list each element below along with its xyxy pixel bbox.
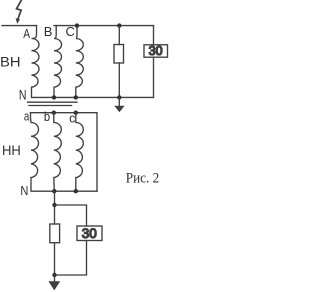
- transformer HV coil C: [76, 26, 84, 98]
- wire resistor to bottom node: [54, 243, 56, 275]
- wire phase B-C bus: [54, 25, 154, 27]
- wire resistor to N bus: [118, 63, 120, 97]
- transformer core lines: [28, 101, 78, 103]
- node resistor top junction: [117, 23, 121, 27]
- wire arrester branch down: [153, 26, 155, 45]
- wire neutral down lead: [54, 191, 56, 224]
- transformer LV coil c: [76, 113, 84, 192]
- wire branch to arrester lower: [55, 205, 87, 226]
- svg-text:A: A: [23, 26, 30, 41]
- svg-text:Рис. 2: Рис. 2: [126, 171, 160, 187]
- node ground tap junction: [117, 95, 121, 99]
- arrester box 30 lower: [77, 226, 102, 241]
- node C bottom junction: [74, 95, 78, 99]
- svg-text:a: a: [24, 109, 29, 123]
- node c bottom junction: [74, 189, 78, 193]
- wire resistor branch upper: [118, 26, 120, 45]
- arrester box 30 upper: [144, 45, 168, 57]
- node B bottom junction: [52, 95, 56, 99]
- svg-text:N: N: [20, 184, 28, 198]
- node bottom junction: [52, 273, 56, 277]
- wire arrester to bottom node: [55, 241, 87, 276]
- node b bottom junction: [52, 189, 56, 193]
- wire phase A bus: [2, 25, 37, 27]
- wire LV neutral bus N: [32, 190, 97, 192]
- ground symbol lower: [48, 275, 60, 290]
- wire arrester to N bus: [153, 57, 155, 97]
- transformer LV coil b: [54, 113, 62, 192]
- svg-text:НН: НН: [2, 143, 21, 158]
- svg-text:30: 30: [82, 226, 97, 241]
- transformer LV coil a: [31, 113, 39, 192]
- resistor LV neutral: [50, 224, 60, 243]
- svg-text:ВН: ВН: [0, 54, 21, 70]
- svg-text:B: B: [44, 24, 53, 39]
- transformer HV coil B: [54, 26, 62, 98]
- resistor HV neutral-point: [114, 45, 124, 64]
- node b top junction: [52, 111, 56, 115]
- svg-text:C: C: [66, 24, 75, 39]
- wire LV top bus: [31, 113, 98, 192]
- lightning stroke arrow: [16, 1, 22, 24]
- svg-text:N: N: [19, 88, 27, 103]
- ground symbol upper: [114, 97, 124, 112]
- node C top junction: [75, 23, 79, 27]
- svg-text:30: 30: [149, 44, 163, 58]
- node branch split junction: [52, 203, 56, 207]
- svg-text:c: c: [69, 112, 75, 126]
- transformer HV coil A: [32, 26, 40, 98]
- wire HV neutral bus N: [32, 96, 154, 98]
- svg-text:b: b: [44, 110, 50, 124]
- node c top junction: [74, 111, 78, 115]
